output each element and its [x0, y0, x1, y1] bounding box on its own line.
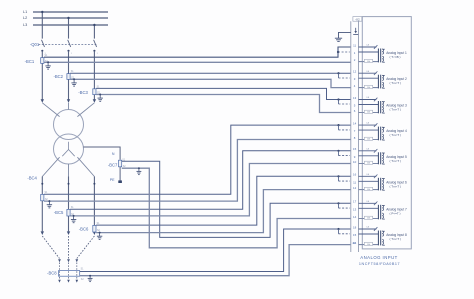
svg-text:-BC6: -BC6	[79, 227, 89, 232]
svg-text:-BC1: -BC1	[25, 59, 35, 64]
svg-text:12: 12	[353, 70, 357, 74]
svg-text:-BC2: -BC2	[53, 74, 63, 79]
svg-text:CA: CA	[366, 147, 370, 150]
svg-text:13: 13	[353, 207, 357, 211]
svg-text:-BC7: -BC7	[108, 163, 118, 168]
svg-text:N: N	[112, 152, 115, 156]
svg-text:-BC8: -BC8	[47, 270, 57, 275]
svg-text:18: 18	[353, 225, 357, 229]
svg-text:17: 17	[353, 200, 357, 204]
svg-text:( Tm<T ): ( Tm<T )	[390, 159, 401, 163]
svg-text:L1: L1	[23, 10, 27, 14]
svg-text:ANALOG INPUT: ANALOG INPUT	[360, 255, 397, 260]
svg-text:15: 15	[353, 233, 357, 237]
svg-text:-Q01: -Q01	[30, 42, 40, 47]
svg-text:CA: CA	[366, 226, 370, 229]
svg-text:13: 13	[353, 96, 357, 100]
svg-text:11: 11	[353, 43, 356, 47]
svg-text:-BC4: -BC4	[27, 176, 37, 181]
svg-text:CA: CA	[366, 173, 370, 176]
svg-text:( Tm<T ): ( Tm<T )	[390, 133, 401, 137]
svg-text:( Tm<T ): ( Tm<T )	[390, 184, 401, 188]
svg-text:( Tm<T ): ( Tm<T )	[390, 81, 401, 85]
svg-text:-BC3: -BC3	[78, 90, 88, 95]
svg-text:CA: CA	[366, 96, 370, 99]
svg-text:L2: L2	[23, 16, 27, 20]
svg-text:L3: L3	[23, 23, 27, 27]
svg-text:CA: CA	[366, 70, 370, 73]
svg-text:14: 14	[353, 122, 357, 126]
svg-text:14: 14	[353, 215, 357, 219]
svg-text:1NCFT58/FDA0B17: 1NCFT58/FDA0B17	[359, 262, 400, 266]
svg-text:12: 12	[353, 186, 357, 190]
svg-text:15: 15	[353, 147, 357, 151]
svg-text:CA: CA	[366, 200, 370, 203]
svg-text:( Tm<T ): ( Tm<T )	[390, 108, 401, 112]
svg-text:-X2: -X2	[355, 18, 360, 22]
svg-text:( T<=B ): ( T<=B )	[390, 55, 401, 59]
svg-text:-BC5: -BC5	[54, 210, 64, 215]
svg-text:16: 16	[353, 173, 357, 177]
svg-text:CA: CA	[366, 44, 370, 47]
svg-text:PE: PE	[110, 178, 115, 182]
svg-text:10: 10	[353, 160, 357, 164]
svg-text:( Tm<T ): ( Tm<T )	[390, 237, 401, 241]
svg-text:( P<=T ): ( P<=T )	[390, 211, 401, 215]
svg-text:11: 11	[353, 180, 356, 184]
svg-text:CA: CA	[366, 122, 370, 125]
